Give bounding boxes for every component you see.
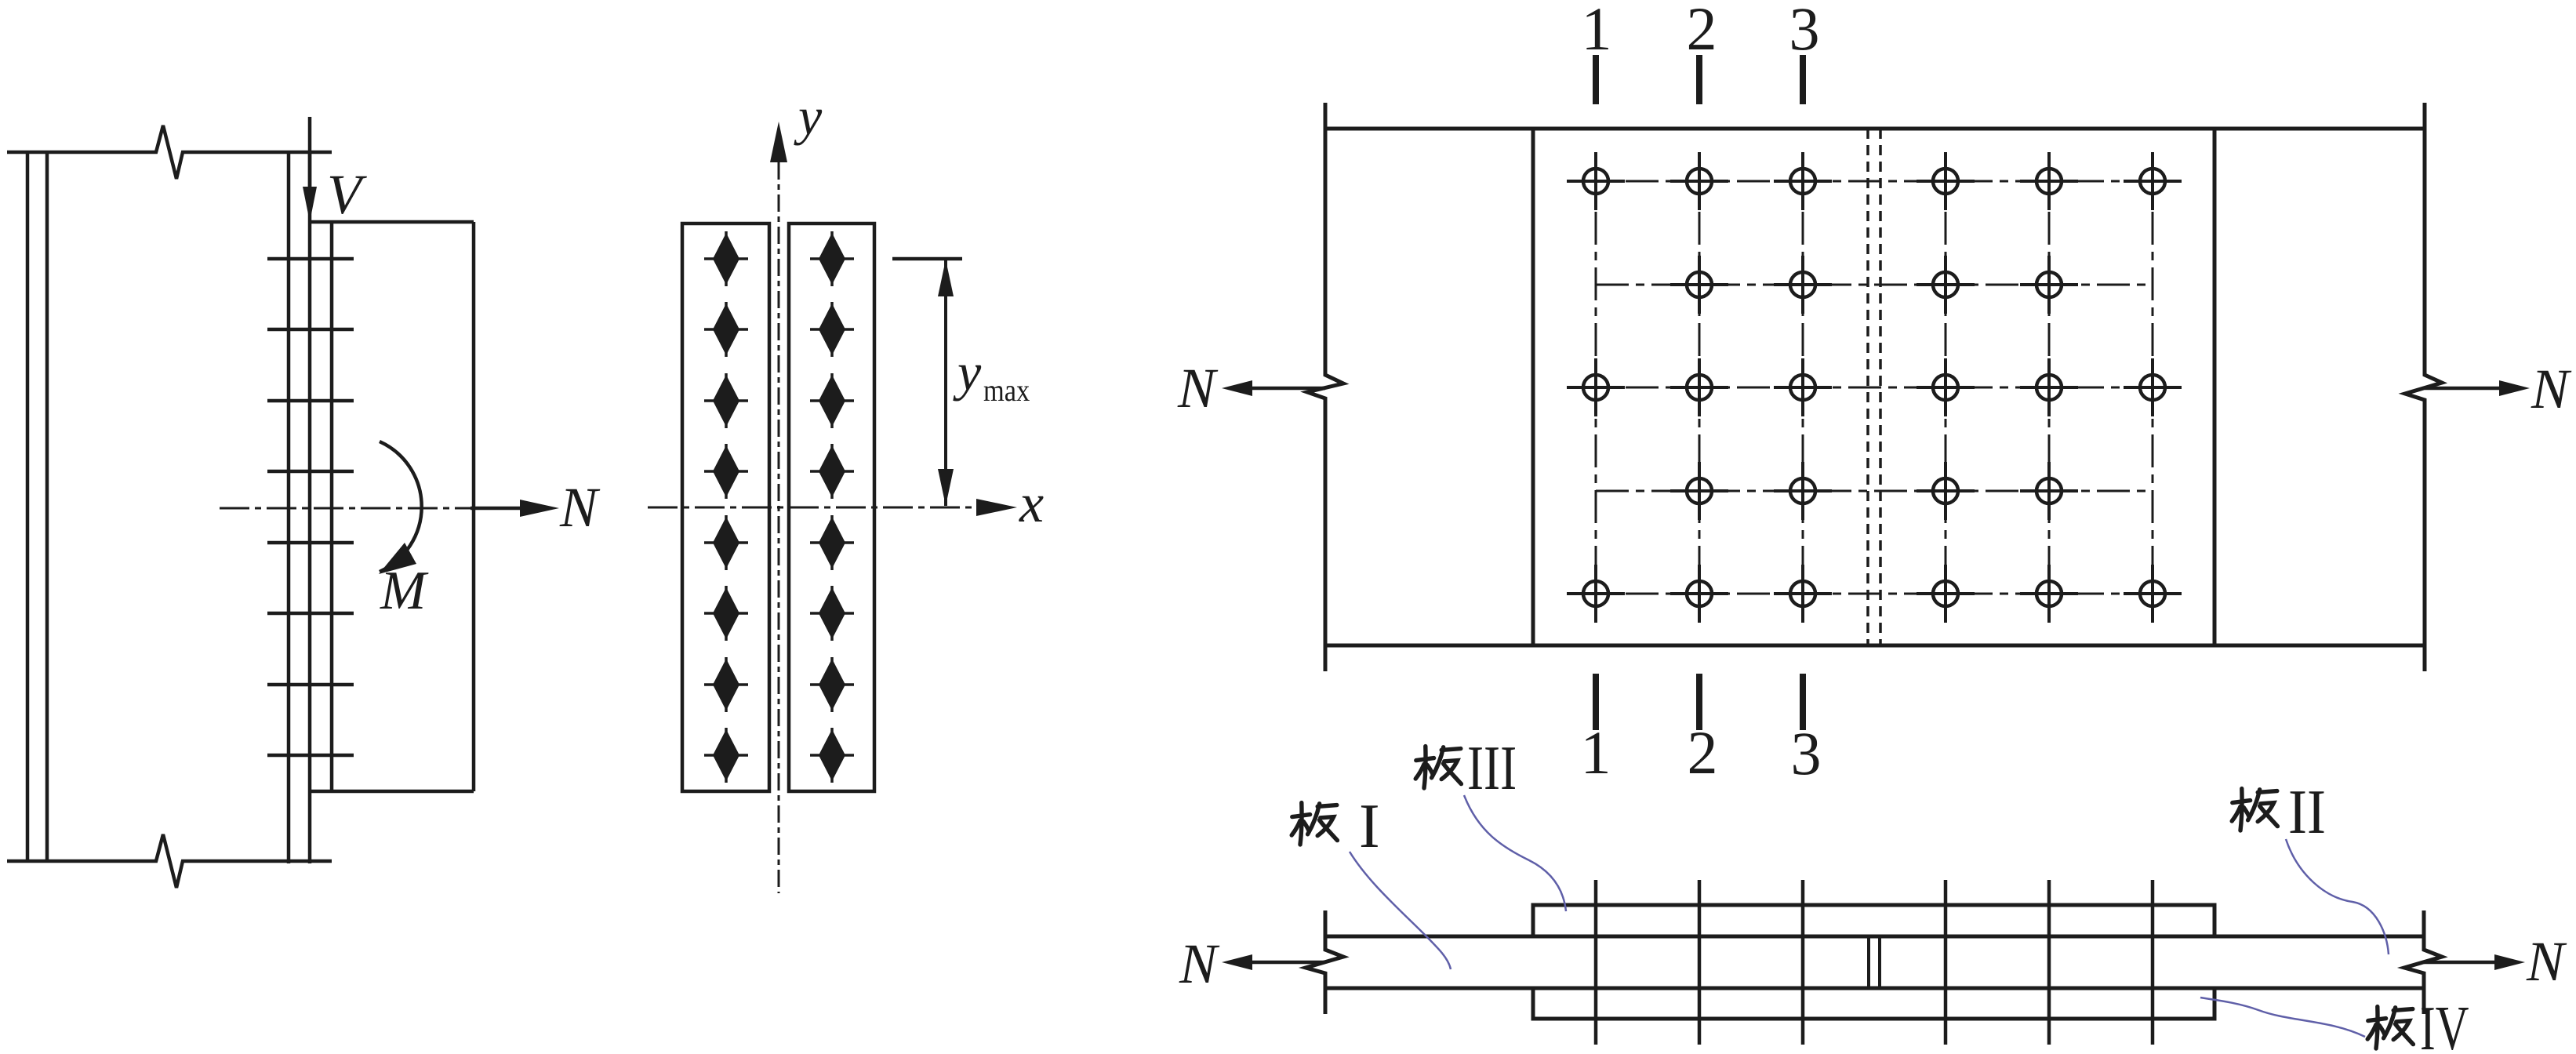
- bolt row line 3: [267, 399, 354, 403]
- plate left cut with break: [1306, 910, 1343, 1014]
- svg-text:IV: IV: [2420, 994, 2469, 1054]
- bolt diamond at (1061,692): [810, 515, 854, 570]
- bolt diamond at (926,511): [704, 373, 748, 428]
- left plate rect: [682, 224, 769, 791]
- N arrowhead fig1: [520, 500, 559, 517]
- N arrow line left fig3: [1248, 387, 1325, 391]
- section mark 1 top: [1593, 55, 1599, 104]
- ymax bottom arrowhead: [938, 469, 954, 506]
- N arrow line right fig4: [2424, 961, 2497, 965]
- bolt gauge dash-dot grid: [1570, 156, 2178, 620]
- ymax top arrowhead: [938, 260, 954, 296]
- label ban IV: [2367, 1007, 2413, 1049]
- bolt row line 1: [267, 257, 354, 261]
- bracket end plate edge: [330, 222, 334, 791]
- bolt circle at (2167,757): [1670, 565, 1728, 623]
- svg-text:N: N: [2531, 358, 2572, 420]
- section marks: [1596, 55, 1803, 730]
- M moment arc: [380, 442, 422, 572]
- gauge col 2: [1699, 156, 1701, 620]
- bolt row line 6: [267, 612, 354, 616]
- N arrow line left fig4: [1248, 961, 1325, 965]
- column left flange line 2: [45, 152, 49, 861]
- bolt diamond at (1061,330): [810, 231, 854, 286]
- main plate bottom line: [1325, 987, 2424, 990]
- bolt diamond at (1061,782): [810, 586, 854, 641]
- bolt circle at (2613,363): [2020, 256, 2078, 314]
- bolt diamond at (926,420): [704, 302, 748, 357]
- bolt circle at (2167,626): [1670, 462, 1728, 520]
- N force arrow line: [471, 507, 527, 511]
- gauge row 1: [1570, 180, 2178, 183]
- y axis arrowhead: [770, 122, 787, 162]
- svg-text:3: 3: [1789, 0, 1820, 63]
- N arrows fig4: [1248, 961, 2497, 965]
- bolt circles with crosshairs: [1567, 152, 2182, 623]
- bracket centerline: [220, 507, 480, 510]
- bolt row line 4: [267, 470, 354, 474]
- butt joint hidden line 2: [1879, 129, 1882, 645]
- bolt row line 7: [267, 683, 354, 687]
- V force arrow shaft: [308, 117, 312, 192]
- bolt circle at (2481,757): [1917, 565, 1975, 623]
- right plate rect: [789, 224, 874, 791]
- section mark 3 top: [1800, 55, 1806, 104]
- top splice plate rect: [1533, 905, 2214, 936]
- bracket plate top: [310, 220, 474, 224]
- section mark 3 bottom: [1800, 674, 1806, 730]
- section mark 2 top: [1696, 55, 1702, 104]
- bolt diamond at (1061,873): [810, 657, 854, 712]
- svg-text:2: 2: [1688, 718, 1718, 787]
- bolt circle at (2035,757): [1567, 565, 1625, 623]
- column bottom break line: [7, 834, 332, 888]
- leader ban I: [1350, 852, 1451, 969]
- column top break line: [7, 125, 332, 179]
- splice plate left edge: [1531, 129, 1535, 645]
- svg-text:3: 3: [1791, 719, 1822, 787]
- svg-text:y: y: [953, 342, 982, 402]
- gauge col 6: [2152, 156, 2154, 620]
- column right flange line 2: [308, 152, 312, 863]
- label ban II: [2232, 789, 2277, 830]
- bolt circle at (2613,231): [2020, 152, 2078, 210]
- bolt circle at (2167,231): [1670, 152, 1728, 210]
- svg-text:V: V: [327, 163, 367, 226]
- ymax top tick: [892, 257, 962, 261]
- svg-text:M: M: [380, 561, 429, 621]
- N arrowhead right fig4: [2494, 954, 2525, 970]
- gauge row 2: [1596, 284, 2153, 286]
- svg-text:N: N: [2526, 930, 2567, 993]
- bolt circle at (2299,626): [1774, 462, 1832, 520]
- N arrows fig3: [1248, 387, 2502, 391]
- gauge row 4: [1596, 490, 2153, 492]
- splice plate right edge: [2213, 129, 2217, 645]
- butt joint line 2: [1878, 937, 1881, 988]
- gauge row 5: [1570, 593, 2178, 595]
- bolt circle at (2481,231): [1917, 152, 1975, 210]
- strip left cut with break: [1307, 103, 1343, 671]
- bolt circle at (2745,757): [2124, 565, 2182, 623]
- svg-text:I: I: [1359, 792, 1380, 861]
- svg-text:N: N: [1177, 357, 1219, 420]
- gauge col 4: [1945, 156, 1947, 620]
- bolt circle at (2745,494): [2124, 358, 2182, 416]
- bolt circle at (2481,626): [1917, 462, 1975, 520]
- x axis centerline: [648, 507, 980, 509]
- svg-text:2: 2: [1687, 0, 1717, 63]
- main strip bottom line: [1325, 644, 2425, 648]
- svg-text:N: N: [559, 476, 601, 539]
- leader ban IV: [2200, 998, 2365, 1037]
- bolt circle at (2299,231): [1774, 152, 1832, 210]
- N arrowhead left fig4: [1222, 954, 1252, 970]
- bottom splice plate rect: [1533, 988, 2214, 1019]
- bolt circle at (2167,494): [1670, 358, 1728, 416]
- bolt circle at (2035,494): [1567, 358, 1625, 416]
- bracket plate bottom: [310, 790, 474, 794]
- bolt diamond at (1061,511): [810, 373, 854, 428]
- main strip top line: [1325, 127, 2425, 131]
- bolt diamond at (926,330): [704, 231, 748, 286]
- bolt row line 2: [267, 328, 354, 332]
- bolt circle at (2299,363): [1774, 256, 1832, 314]
- bolt circle at (2035,231): [1567, 152, 1625, 210]
- butt joint line 1: [1867, 937, 1870, 988]
- bolt diamond at (926,601): [704, 444, 748, 499]
- bolt circle at (2613,757): [2020, 565, 2078, 623]
- column left flange line 1: [26, 152, 30, 861]
- M arrowhead: [379, 543, 416, 574]
- bracket plate right edge: [472, 222, 476, 791]
- ymax dimension line: [944, 260, 947, 506]
- plate right cut with break: [2404, 910, 2442, 1014]
- bolt diamond at (926,963): [704, 728, 748, 783]
- bolt circle at (2167,363): [1670, 256, 1728, 314]
- y axis centerline: [778, 162, 780, 893]
- svg-text:III: III: [1467, 733, 1517, 803]
- bolt circle at (2745,231): [2124, 152, 2182, 210]
- bolt diamond at (926,692): [704, 515, 748, 570]
- svg-text:1: 1: [1581, 718, 1611, 787]
- gauge col 5: [2048, 156, 2051, 620]
- leader ban II: [2286, 839, 2389, 954]
- column right flange line 1: [287, 152, 291, 863]
- main plate top line: [1325, 935, 2424, 939]
- bolt circle at (2613,494): [2020, 358, 2078, 416]
- bolt circle at (2299,494): [1774, 358, 1832, 416]
- bolt circle at (2481,494): [1917, 358, 1975, 416]
- label ban I: [1292, 803, 1337, 845]
- gauge row 3: [1570, 387, 2178, 389]
- bolt circle at (2299,757): [1774, 565, 1832, 623]
- svg-text:N: N: [1179, 932, 1220, 995]
- svg-text:II: II: [2288, 778, 2326, 847]
- bolt diamond at (1061,963): [810, 728, 854, 783]
- bolt circle at (2613,626): [2020, 462, 2078, 520]
- strip right cut with break: [2405, 103, 2442, 671]
- bolt diamond at (1061,420): [810, 302, 854, 357]
- N arrow line right fig3: [2425, 387, 2502, 391]
- V arrowhead: [303, 187, 317, 222]
- bolt diamond at (926,782): [704, 586, 748, 641]
- leader ban III: [1464, 795, 1566, 911]
- svg-text:x: x: [1019, 474, 1044, 534]
- section mark 1 bottom: [1593, 674, 1599, 730]
- N arrowhead left fig3: [1222, 380, 1252, 396]
- bolt row line 5: [267, 541, 354, 545]
- svg-text:1: 1: [1582, 0, 1612, 63]
- N arrowhead right fig3: [2499, 380, 2530, 396]
- section mark 2 bottom: [1696, 674, 1702, 730]
- svg-text:y: y: [794, 86, 823, 146]
- bolt diamond at (1061,601): [810, 444, 854, 499]
- bolt circle at (2481,363): [1917, 256, 1975, 314]
- bolt diamond at (926,873): [704, 657, 748, 712]
- gauge col 1: [1595, 156, 1597, 620]
- gauge col 3: [1802, 156, 1804, 620]
- butt joint hidden line 1: [1866, 129, 1869, 645]
- bolt lines fig4: [1596, 880, 2153, 1045]
- bolt row line 8: [267, 754, 354, 758]
- label ban III: [1415, 747, 1461, 788]
- svg-text:max: max: [983, 374, 1030, 409]
- x axis arrowhead: [976, 499, 1017, 516]
